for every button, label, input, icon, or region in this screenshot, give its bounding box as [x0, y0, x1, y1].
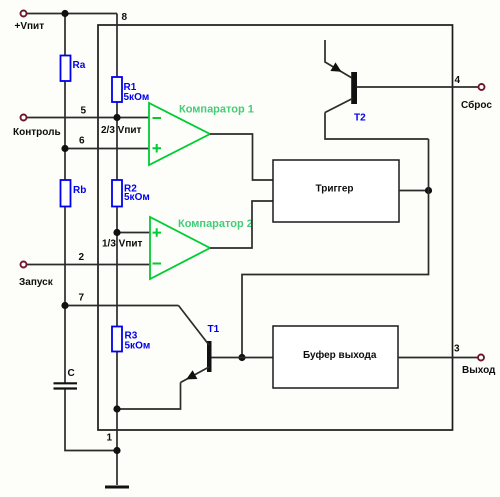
op-amp comparator 2	[150, 217, 210, 279]
svg-text:3: 3	[454, 344, 460, 355]
capacitor C plates	[54, 382, 78, 384]
svg-text:2/3 Vпит: 2/3 Vпит	[101, 125, 142, 136]
transistor T1	[207, 341, 212, 372]
svg-text:Запуск: Запуск	[19, 277, 54, 288]
comparator 2 minus input sign	[153, 263, 162, 265]
svg-text:Буфер выхода: Буфер выхода	[303, 349, 377, 361]
IC package outline	[98, 25, 453, 430]
junction Rb bottom pin 7	[61, 302, 68, 309]
svg-text:5кОм: 5кОм	[125, 341, 151, 352]
wire pin 4 reset	[357, 86, 479, 88]
svg-text:1/3 Vпит: 1/3 Vпит	[102, 239, 143, 250]
svg-text:1: 1	[107, 433, 113, 444]
terminal +Vpit	[21, 11, 27, 17]
wire T2 emitter path down to trigger node and T1 base	[325, 113, 429, 140]
T2 collector diagonal	[325, 99, 353, 113]
svg-text:2: 2	[79, 252, 85, 263]
comparator 1 minus input sign	[153, 117, 162, 119]
wire +Vpit rail to pin 8	[27, 13, 117, 15]
comparator 1 plus input sign	[153, 144, 162, 153]
wire pin 6 threshold	[65, 148, 149, 150]
T2 emitter diagonal with arrow	[325, 40, 352, 78]
terminal Sbros pin 4	[479, 84, 485, 90]
junction R3 bottom / T1 emitter	[113, 405, 120, 412]
resistor R1 5kOm	[112, 77, 122, 102]
svg-text:T1: T1	[208, 324, 220, 335]
svg-text:Rb: Rb	[73, 185, 86, 196]
resistor R3 5kOm	[112, 327, 122, 352]
svg-text:5кОм: 5кОм	[124, 92, 150, 103]
svg-text:Контроль: Контроль	[13, 127, 61, 138]
transistor T2	[351, 72, 357, 104]
comparator 2 plus input sign	[153, 228, 162, 237]
terminal Zapusk pin 2	[21, 262, 27, 268]
T1 emitter return wire	[117, 383, 181, 410]
svg-text:T2: T2	[354, 113, 366, 124]
wire pin 3 output	[398, 357, 478, 359]
wire 1/3 Vpit to comparator 2	[117, 232, 150, 234]
wire pin 2 trigger input	[27, 264, 150, 266]
junction T1 base node	[238, 354, 245, 361]
svg-text:7: 7	[79, 293, 85, 304]
op-amp comparator 1	[149, 103, 210, 165]
svg-text:+Vпит: +Vпит	[15, 21, 45, 32]
T1 emitter diagonal with arrow	[181, 367, 210, 383]
wire capacitor bottom lead to pin 1	[65, 390, 117, 451]
junction pin 1 node	[113, 447, 120, 454]
wire comparator 2 output to trigger	[210, 201, 273, 248]
svg-text:Ra: Ra	[73, 60, 86, 71]
svg-text:Компаратор 2: Компаратор 2	[178, 218, 253, 230]
junction Vcc rail / Ra top	[61, 10, 68, 17]
T1 base wire	[212, 357, 274, 359]
svg-text:8: 8	[122, 12, 128, 23]
trigger block	[273, 160, 399, 222]
terminal Vykhod pin 3	[478, 355, 484, 361]
svg-text:Компаратор 1: Компаратор 1	[179, 104, 254, 116]
svg-text:Триггер: Триггер	[316, 184, 354, 195]
output buffer block	[273, 326, 398, 388]
T1 collector diagonal	[179, 306, 210, 346]
svg-text:Сброс: Сброс	[461, 99, 492, 111]
junction trigger output node	[425, 187, 432, 194]
junction Ra/Rb node pin 6	[61, 145, 68, 152]
junction node 1/3 Vpit	[113, 229, 120, 236]
resistor R2 5kOm	[112, 180, 122, 207]
resistor Rb	[61, 180, 71, 207]
wire pin 7 discharge	[65, 305, 179, 307]
wire trigger output	[399, 190, 429, 192]
wire pin8 / divider column R1-R2-R3 down to ground	[116, 14, 118, 486]
svg-text:6: 6	[79, 136, 85, 147]
wire pin 5 Control	[27, 117, 149, 119]
svg-text:Выход: Выход	[462, 365, 496, 376]
svg-text:5кОм: 5кОм	[124, 192, 150, 203]
wire Ra-Rb-C column	[64, 14, 66, 383]
terminal Control pin 5	[21, 115, 27, 121]
svg-text:4: 4	[455, 75, 461, 86]
ground	[105, 486, 129, 489]
svg-text:C: C	[68, 368, 75, 379]
junction node 2/3 Vpit	[113, 114, 120, 121]
svg-text:5: 5	[81, 106, 87, 117]
wire comparator 1 output to trigger	[210, 134, 273, 180]
resistor Ra	[61, 56, 71, 82]
